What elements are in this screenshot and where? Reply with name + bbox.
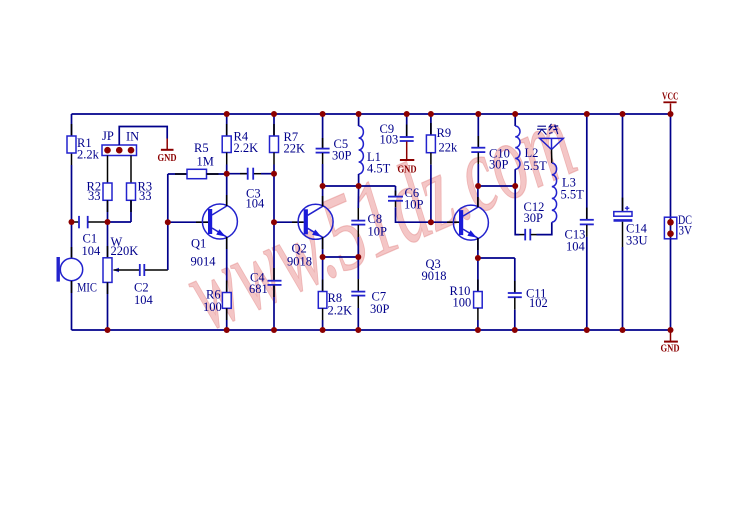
antenna: [540, 138, 564, 163]
wire Q2 base lead: [274, 221, 304, 223]
resistor R4: [222, 114, 258, 165]
svg-text:2.2k: 2.2k: [77, 148, 100, 162]
capacitor C1: [72, 216, 108, 258]
ground GND near JP: [158, 139, 177, 165]
capacitor C2: [134, 264, 168, 307]
svg-text:102: 102: [529, 296, 548, 310]
wire C8 to node y257: [357, 237, 359, 257]
resistor R1: [67, 124, 100, 165]
svg-text:104: 104: [246, 197, 266, 211]
svg-text:JP: JP: [102, 129, 114, 143]
node top rail junctions: [224, 111, 674, 117]
svg-text:104: 104: [82, 244, 102, 258]
transistor Q1: [191, 204, 238, 269]
capacitor C12: [520, 200, 545, 240]
wire node row y186 right: [478, 185, 515, 187]
wire Q3 emitter: [477, 238, 479, 258]
svg-text:100: 100: [453, 296, 472, 310]
svg-text:2.2K: 2.2K: [328, 304, 353, 318]
svg-text:GND: GND: [398, 165, 417, 176]
ground GND bottom right: [661, 330, 680, 355]
power VCC: [662, 92, 679, 115]
wire R5 left lead: [168, 173, 187, 175]
resistor R9: [426, 114, 458, 165]
wire node row y222: [108, 221, 132, 223]
node bottom rail junctions: [105, 327, 674, 333]
wire Q2 collector: [322, 186, 324, 206]
svg-text:220K: 220K: [111, 244, 139, 258]
capacitor C4: [249, 271, 282, 297]
svg-text:9018: 9018: [422, 269, 447, 283]
svg-text:5.5T: 5.5T: [524, 159, 548, 173]
svg-text:Q2: Q2: [292, 242, 307, 256]
capacitor C14 electrolytic: [614, 114, 648, 248]
antenna label: [537, 124, 558, 135]
wire C14 to bottom rail: [622, 247, 624, 330]
potentiometer W 220K: [103, 235, 139, 282]
wire C10 to node: [477, 164, 479, 186]
svg-text:R5: R5: [194, 141, 209, 155]
resistor R5: [187, 141, 214, 179]
svg-text:33U: 33U: [626, 234, 648, 248]
capacitor C9: [380, 114, 414, 147]
svg-text:GND: GND: [158, 153, 177, 164]
inductor L3: [552, 163, 584, 222]
svg-text:3V: 3V: [679, 224, 693, 238]
wire JP pin2 up and right: [119, 127, 167, 146]
node mid junctions: [69, 171, 519, 261]
svg-text:10P: 10P: [404, 198, 424, 212]
capacitor C10: [471, 114, 510, 172]
inductor L1: [359, 114, 391, 186]
capacitor C11: [508, 258, 548, 310]
transistor Q3: [422, 205, 489, 283]
wire Q1 emitter to R6: [226, 237, 228, 293]
wire R2 to node: [107, 200, 109, 222]
wire R8 to bottom rail: [322, 320, 324, 330]
resistor R10: [450, 258, 483, 320]
svg-text:10P: 10P: [368, 225, 388, 239]
svg-text:GND: GND: [661, 344, 680, 355]
wire left rail upper: [71, 114, 73, 136]
wire C6 to R9 node: [396, 207, 431, 222]
capacitor C8: [351, 186, 387, 239]
resistor R8: [318, 257, 352, 320]
wire C13 to bottom rail: [586, 237, 588, 330]
svg-text:5.5T: 5.5T: [561, 188, 585, 202]
svg-text:2.2K: 2.2K: [234, 141, 259, 155]
wire R10 to bottom rail: [477, 320, 479, 330]
svg-text:30P: 30P: [370, 302, 390, 316]
svg-text:104: 104: [566, 240, 586, 254]
wire emitter node row y257: [323, 256, 359, 258]
wire W to bottom rail: [107, 282, 109, 330]
microphone MIC: [57, 257, 98, 295]
svg-text:30P: 30P: [489, 158, 509, 172]
wire C11 to bottom rail: [514, 310, 516, 330]
transistor Q2: [287, 204, 333, 268]
svg-text:103: 103: [380, 133, 399, 147]
resistor R6: [203, 288, 231, 315]
wire C2 riser to R5: [167, 174, 169, 270]
resistor R7: [270, 114, 306, 165]
resistor R3: [127, 180, 153, 204]
inductor L2: [515, 114, 547, 186]
svg-text:IN: IN: [126, 130, 139, 144]
svg-text:9018: 9018: [287, 255, 312, 269]
wire MIC to bottom rail: [71, 281, 73, 330]
svg-text:30P: 30P: [332, 149, 352, 163]
svg-text:1M: 1M: [197, 155, 214, 169]
wire C7 to bottom rail: [357, 308, 359, 330]
wire JP pin1 to R2: [107, 156, 109, 184]
svg-text:104: 104: [134, 293, 154, 307]
svg-text:VCC: VCC: [662, 92, 679, 103]
wire VCC top rail: [72, 113, 671, 115]
wire left rail to MIC: [71, 222, 73, 259]
svg-text:MIC: MIC: [77, 281, 97, 295]
capacitor C5: [316, 114, 352, 164]
wire Q3 collector: [477, 186, 479, 207]
capacitor C6: [388, 186, 424, 212]
resistor R2: [87, 180, 113, 204]
svg-text:33: 33: [139, 189, 152, 203]
wire node to W: [107, 222, 109, 258]
wire node row y186 left: [323, 185, 396, 187]
connector JP/IN: [102, 129, 139, 156]
wire right rail lower: [670, 239, 672, 330]
wire left rail mid: [71, 165, 73, 222]
wire R4 to node: [226, 165, 228, 174]
wire R9 to node: [430, 165, 432, 223]
svg-text:22k: 22k: [439, 141, 459, 155]
wire Q1 collector: [226, 174, 228, 206]
wire C12 to L3 bottom: [537, 222, 552, 234]
wire emitter node row y258: [478, 257, 515, 259]
svg-text:22K: 22K: [284, 142, 306, 156]
wire right rail upper: [670, 114, 672, 217]
svg-text:Q1: Q1: [191, 237, 206, 251]
svg-text:L2: L2: [525, 146, 539, 160]
wire Q1 base lead: [168, 221, 208, 223]
wire R3 to node row: [130, 200, 132, 222]
connector DC 3V: [664, 213, 692, 239]
svg-text:9014: 9014: [191, 255, 217, 269]
capacitor C7: [351, 257, 389, 316]
capacitor C3: [227, 168, 274, 211]
capacitor C13: [565, 114, 594, 254]
ground GND below C9: [398, 142, 417, 176]
svg-text:100: 100: [203, 300, 222, 314]
svg-text:30P: 30P: [524, 211, 544, 225]
wire GND bottom rail: [72, 329, 671, 331]
wire Q3 base lead: [431, 221, 459, 223]
svg-text:681: 681: [249, 282, 268, 296]
wire IN pin3 to R3: [130, 156, 132, 184]
wire R6 to bottom rail: [226, 308, 228, 330]
wire R5 right lead: [207, 173, 227, 175]
svg-text:33: 33: [88, 189, 101, 203]
wire C4 to bottom rail: [273, 286, 275, 331]
wire L2 node down to C12: [515, 186, 519, 235]
svg-text:R9: R9: [437, 126, 452, 140]
svg-text:4.5T: 4.5T: [367, 162, 391, 176]
wire Q2 emitter: [322, 237, 324, 257]
wire R7 column lower: [273, 222, 275, 280]
wire R7 column: [273, 165, 275, 223]
wire C5 to node: [322, 164, 324, 186]
